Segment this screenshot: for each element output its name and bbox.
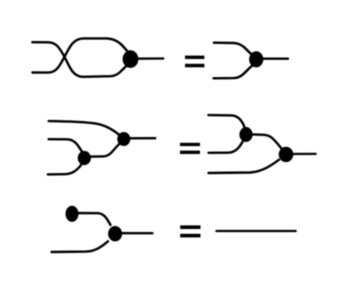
wire: row3 right identity line xyxy=(216,230,295,232)
wire: row3 unit dot to multiplication dot xyxy=(72,213,111,225)
wire: row2 left middle input to lower dot xyxy=(49,139,85,157)
wire: row2 right top input to upper dot xyxy=(208,115,245,128)
node: row2 right lower multiplication dot xyxy=(279,147,294,162)
wire: row2 left top input to upper dot xyxy=(49,121,124,139)
equals sign row2 xyxy=(180,143,200,154)
node: row1 left multiplication dot xyxy=(123,50,139,68)
wire: row1 right output xyxy=(257,58,288,60)
wire: row3 output xyxy=(116,232,152,234)
wire: row1 right bottom input xyxy=(214,65,254,79)
wire: row2 right middle input to upper dot xyxy=(209,141,244,153)
wire: row2 right connector upper dot to lower dot xyxy=(246,134,284,151)
node: row3 unit dot xyxy=(66,206,79,222)
wire: row2 right output xyxy=(287,153,316,155)
wire: row2 right bottom input to lower dot xyxy=(209,160,280,173)
node: row2 left lower multiplication dot xyxy=(78,151,91,165)
wire: row1 left output xyxy=(131,57,163,60)
node: row2 right upper multiplication dot xyxy=(239,127,252,142)
wire: row3 bottom input to multiplication dot xyxy=(52,241,109,252)
wire: row1 left, bottom input crossing up to lens top xyxy=(32,38,128,72)
equals sign row1 xyxy=(185,56,204,68)
wire: row1 right top input xyxy=(214,43,254,57)
wire: row2 left connector lower dot to upper dot xyxy=(84,140,124,157)
node: row1 right multiplication dot xyxy=(249,51,263,67)
wire: row1 left, top input crossing down to lens bottom xyxy=(32,42,128,77)
node: row2 left upper multiplication dot xyxy=(117,132,130,146)
wire: row2 left bottom input to lower dot xyxy=(48,159,85,174)
equals sign row3 xyxy=(180,225,200,237)
wire: row2 left output xyxy=(124,137,155,139)
node: row3 multiplication dot xyxy=(108,226,122,241)
